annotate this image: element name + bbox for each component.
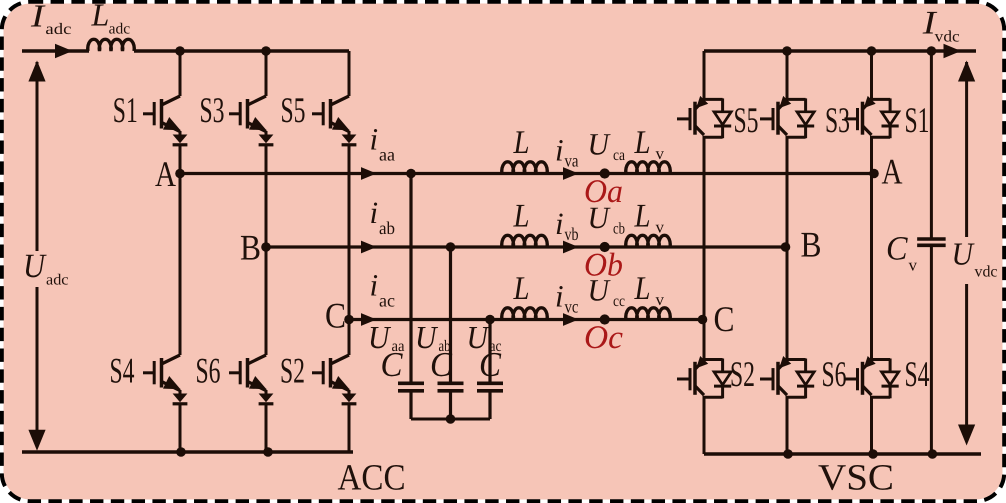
inductor Ladc xyxy=(88,39,134,51)
svg-text:i: i xyxy=(370,122,379,157)
label S5 xyxy=(281,90,306,130)
label L_v (phase c) xyxy=(634,271,665,309)
label i_aa xyxy=(370,122,396,165)
label S6 (VSC) xyxy=(822,354,847,394)
svg-text:ca: ca xyxy=(613,147,625,164)
arrow: i_va current xyxy=(563,167,579,180)
wire: VSC leg2 top (rail to S3) xyxy=(786,51,789,99)
svg-text:vdc: vdc xyxy=(935,29,960,46)
label S3 xyxy=(200,90,225,130)
wire: VSC bottom DC rail xyxy=(704,452,981,455)
transistor S5 (VSC IGBT with antiparallel diode) xyxy=(677,96,731,138)
node A (VSC) junction xyxy=(869,169,879,179)
wire: VSC leg1 lower-mid xyxy=(703,320,706,360)
svg-text:I: I xyxy=(30,0,46,33)
svg-text:L: L xyxy=(634,125,651,161)
svg-text:U: U xyxy=(588,273,612,308)
label S6 xyxy=(196,351,221,391)
label VSC xyxy=(818,458,894,499)
svg-text:adc: adc xyxy=(45,21,71,38)
arrow+wire: Uvdc measurement (up head) xyxy=(958,61,975,238)
label i_vb xyxy=(555,206,579,244)
wire: ACC leg2 (node B to S6) xyxy=(265,247,268,355)
svg-text:U: U xyxy=(588,127,612,162)
wire: ACC leg2 (S3 to node B) xyxy=(265,145,268,247)
transistor S1 (VSC IGBT with antiparallel diode) xyxy=(845,96,899,138)
junction: VSC top rail / leg3 xyxy=(867,46,877,56)
wire: Cv branch upper xyxy=(930,51,933,239)
wire: phase a line xyxy=(180,172,872,175)
junction: VSC top rail / Cv branch xyxy=(927,46,937,56)
inductor L (phase a) xyxy=(502,162,547,174)
arrow: i_vc current xyxy=(563,313,579,326)
wire: ACC leg3 top (rail to S5) xyxy=(348,51,351,96)
label S1 xyxy=(113,90,138,130)
junction: phase b / filter cap branch xyxy=(446,242,456,252)
node Ob junction (U_cb) xyxy=(600,242,610,252)
svg-text:L: L xyxy=(634,271,651,307)
svg-text:S5: S5 xyxy=(281,90,306,130)
label node B (ACC) xyxy=(240,228,261,268)
label node C (ACC) xyxy=(325,296,346,336)
wire: ACC leg2 bottom (to rail) xyxy=(265,404,268,452)
svg-text:L: L xyxy=(634,199,651,235)
label ACC xyxy=(338,458,406,499)
label L_adc xyxy=(91,0,131,38)
svg-text:S3: S3 xyxy=(200,90,225,130)
arrow: i_aa current xyxy=(361,167,377,180)
svg-text:U: U xyxy=(23,248,47,285)
svg-text:S1: S1 xyxy=(113,90,138,130)
label I_vdc xyxy=(922,5,960,45)
svg-text:L: L xyxy=(91,0,110,33)
transistor S5 (ACC IGBT with series diode) xyxy=(312,96,356,145)
svg-text:i: i xyxy=(555,279,564,314)
transistor S4 (VSC IGBT with antiparallel diode) xyxy=(845,356,899,398)
svg-text:U: U xyxy=(952,236,975,272)
wire: VSC leg1 top (rail to S5) xyxy=(703,51,706,99)
svg-text:cc: cc xyxy=(613,293,625,310)
svg-text:S2: S2 xyxy=(280,351,305,391)
transistor S1 (ACC IGBT with series diode) xyxy=(143,96,187,145)
arrow+wire: Uadc measurement (up head) xyxy=(28,61,45,252)
junction: cap common point xyxy=(446,414,456,424)
wire: phase b line xyxy=(266,245,787,248)
label i_ab xyxy=(370,195,396,238)
svg-text:adc: adc xyxy=(109,21,131,38)
wire: VSC leg2 lower-mid xyxy=(786,247,789,360)
svg-text:C: C xyxy=(714,299,735,339)
svg-text:C: C xyxy=(430,345,453,384)
svg-text:v: v xyxy=(656,144,665,163)
transistor S6 (ACC IGBT with series diode) xyxy=(229,355,273,404)
inductor Lv (phase c) xyxy=(626,308,670,320)
wire: ACC bottom DC rail xyxy=(22,450,353,453)
svg-text:vc: vc xyxy=(565,297,579,317)
wire: VSC leg2 middle xyxy=(786,137,789,247)
junction: phase c / filter cap branch xyxy=(485,315,495,325)
svg-text:i: i xyxy=(370,195,379,230)
label node C (VSC) xyxy=(714,299,735,339)
wire: VSC leg3 middle xyxy=(870,137,873,173)
node C (VSC) junction xyxy=(698,315,708,325)
arrow: Ivdc current xyxy=(944,44,962,59)
node A (ACC) junction xyxy=(175,169,185,179)
svg-text:C: C xyxy=(381,345,404,384)
wire: filter cap branch 1 vertical xyxy=(409,174,412,384)
svg-text:B: B xyxy=(240,228,261,268)
node B (ACC) junction xyxy=(261,242,271,252)
svg-text:v: v xyxy=(656,218,665,237)
svg-text:L: L xyxy=(513,199,530,235)
transistor S6 (VSC IGBT with antiparallel diode) xyxy=(760,356,814,398)
wire: cap 1 to common bar xyxy=(409,391,412,419)
svg-text:S4: S4 xyxy=(905,354,930,394)
label L_v (phase b) xyxy=(634,199,665,237)
inductor Lv (phase b) xyxy=(626,235,670,247)
label U_cb xyxy=(588,200,626,238)
svg-text:Oc: Oc xyxy=(584,320,623,356)
capacitor C (U_ab branch) xyxy=(438,383,464,391)
label L (phase c) xyxy=(513,271,530,307)
junction: top rail / leg1 xyxy=(175,46,185,56)
node B (VSC) junction xyxy=(781,242,791,252)
label C_v xyxy=(886,231,918,275)
wire: ACC leg2 top (rail to S3) xyxy=(265,51,268,96)
label Oc xyxy=(584,320,623,356)
svg-text:S6: S6 xyxy=(196,351,221,391)
svg-text:cb: cb xyxy=(613,221,625,238)
wire: VSC leg2 bottom (to rail) xyxy=(786,397,789,454)
svg-text:S2: S2 xyxy=(730,354,755,394)
node Oc junction (U_cc) xyxy=(600,314,610,324)
label L (phase b) xyxy=(513,199,530,235)
inductor Lv (phase a) xyxy=(626,162,670,174)
svg-text:B: B xyxy=(801,225,822,265)
svg-text:S6: S6 xyxy=(822,354,847,394)
junction: phase a / filter cap branch xyxy=(406,169,416,179)
label S1 (VSC) xyxy=(905,100,930,140)
junction: VSC top rail / leg2 xyxy=(782,46,792,56)
capacitor C (U_ac branch) xyxy=(477,383,503,391)
label i_ac xyxy=(370,268,396,311)
label L (phase a) xyxy=(513,125,530,161)
svg-text:v: v xyxy=(656,290,665,309)
svg-text:C: C xyxy=(325,296,346,336)
arrow: i_ab current xyxy=(361,241,377,254)
svg-text:S5: S5 xyxy=(734,100,759,140)
svg-text:ACC: ACC xyxy=(338,458,406,499)
svg-text:L: L xyxy=(513,125,530,161)
label Oa xyxy=(584,174,623,210)
svg-text:ab: ab xyxy=(379,218,395,238)
wire: VSC leg1 middle xyxy=(703,137,706,319)
wire: ACC leg1 (S1 to node A) xyxy=(179,145,182,174)
svg-text:S4: S4 xyxy=(110,351,135,391)
label S4 (VSC) xyxy=(905,354,930,394)
label U_adc xyxy=(23,248,69,289)
label U_ca xyxy=(588,127,626,165)
junction: bottom rail / leg1 xyxy=(176,447,186,457)
node C (ACC) junction xyxy=(344,315,354,325)
label U_ac xyxy=(467,319,502,355)
svg-text:U: U xyxy=(588,200,612,235)
label node A (VSC) xyxy=(882,152,903,192)
transistor S4 (ACC IGBT with series diode) xyxy=(143,355,187,404)
arrow+wire: Uadc measurement (down head) xyxy=(28,287,45,451)
arrow: i_vb current xyxy=(563,241,579,254)
label S4 xyxy=(110,351,135,391)
label node A (ACC) xyxy=(155,154,176,194)
capacitor Cv xyxy=(917,239,946,245)
svg-text:adc: adc xyxy=(46,272,69,289)
wire: Cv branch lower xyxy=(930,245,933,454)
wire: ACC leg3 (node C to S2) xyxy=(348,320,351,356)
svg-text:va: va xyxy=(565,151,579,171)
wire: VSC leg3 bottom (to rail) xyxy=(870,397,873,454)
capacitor C (U_aa branch) xyxy=(398,383,424,391)
wire: ACC top DC rail left of Ladc xyxy=(22,49,89,52)
svg-text:vdc: vdc xyxy=(975,263,998,280)
inductor L (phase b) xyxy=(502,235,547,247)
inductor L (phase c) xyxy=(502,308,547,320)
svg-text:C: C xyxy=(886,231,908,268)
label node B (VSC) xyxy=(801,225,822,265)
junction: VSC bottom rail / leg2 xyxy=(783,449,793,459)
label S2 xyxy=(280,351,305,391)
wire: ACC leg1 bottom (to rail) xyxy=(179,404,182,452)
label C (cap1) xyxy=(381,345,404,384)
wire: VSC top DC rail xyxy=(704,49,976,52)
svg-text:A: A xyxy=(155,154,176,194)
arrow+wire: Uvdc measurement (down head) xyxy=(958,284,975,446)
label Ob xyxy=(584,248,623,284)
wire: filter cap branch 2 vertical xyxy=(449,247,452,383)
label U_cc xyxy=(588,273,626,311)
label S3 (VSC) xyxy=(825,100,850,140)
label S2 (VSC) xyxy=(730,354,755,394)
transistor S2 (ACC IGBT with series diode) xyxy=(312,355,356,404)
label C (cap3) xyxy=(479,345,502,384)
svg-text:i: i xyxy=(555,206,564,241)
label U_aa xyxy=(368,319,405,355)
svg-text:ac: ac xyxy=(379,291,395,311)
svg-text:A: A xyxy=(882,152,903,192)
svg-text:C: C xyxy=(479,345,502,384)
wire: ACC leg3 (S5 to node C) xyxy=(348,145,351,320)
svg-text:vb: vb xyxy=(565,224,579,244)
wire: cap 2 to common bar xyxy=(449,391,452,419)
wire: VSC leg1 bottom (to rail) xyxy=(703,397,706,454)
transistor S3 (VSC IGBT with antiparallel diode) xyxy=(760,96,814,138)
label i_vc xyxy=(555,279,579,317)
svg-text:aa: aa xyxy=(379,145,395,165)
junction: bottom rail / leg2 xyxy=(263,447,273,457)
label U_vdc xyxy=(952,236,998,281)
wire: VSC leg3 top (rail to S1) xyxy=(870,51,873,99)
wire: VSC leg3 lower-mid xyxy=(870,174,873,360)
wire: ACC leg3 bottom (to rail) xyxy=(348,404,351,452)
transistor S2 (VSC IGBT with antiparallel diode) xyxy=(677,356,731,398)
svg-text:VSC: VSC xyxy=(818,458,894,499)
svg-text:i: i xyxy=(370,268,379,303)
transistor S3 (ACC IGBT with series diode) xyxy=(229,96,273,145)
wire: phase c line xyxy=(349,318,704,321)
wire: ACC top DC rail right of Ladc xyxy=(134,49,349,52)
svg-text:v: v xyxy=(909,256,918,275)
label L_v (phase a) xyxy=(634,125,665,163)
wire: ACC leg1 top (rail to S1) xyxy=(179,51,182,96)
wire: cap 3 to common bar xyxy=(488,391,491,419)
label I_adc xyxy=(30,0,72,38)
label S5 (VSC) xyxy=(734,100,759,140)
svg-text:L: L xyxy=(513,271,530,307)
svg-text:S1: S1 xyxy=(905,100,930,140)
arrow: i_ac current xyxy=(361,313,377,326)
svg-text:i: i xyxy=(555,133,564,168)
wire: ACC leg1 (node A to S4) xyxy=(179,174,182,356)
label i_va xyxy=(555,133,579,171)
junction: VSC bottom rail / Cv branch xyxy=(928,449,938,459)
wire: filter cap common bar xyxy=(411,418,490,421)
junction: VSC bottom rail / leg3 xyxy=(868,449,878,459)
junction: top rail / leg2 xyxy=(261,46,271,56)
label U_ab xyxy=(415,319,451,355)
arrow: Iadc current direction xyxy=(55,44,73,59)
node Oa junction (U_ca) xyxy=(600,168,610,178)
label C (cap2) xyxy=(430,345,453,384)
wire: filter cap branch 3 vertical xyxy=(488,320,491,384)
